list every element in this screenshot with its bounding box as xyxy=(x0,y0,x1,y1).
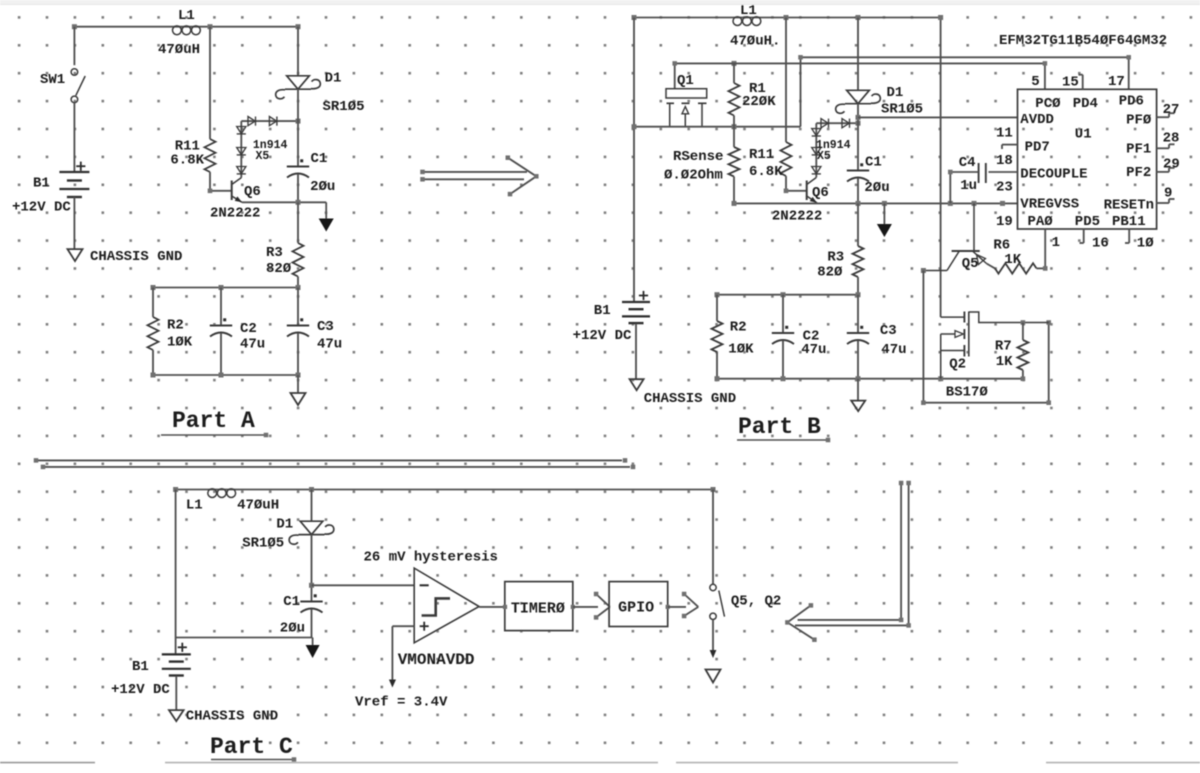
svg-text:Part B: Part B xyxy=(738,414,821,440)
node Q2 drain to R7 xyxy=(1021,320,1026,325)
svg-text:PD6: PD6 xyxy=(1119,94,1144,110)
resistor R11 6.8K (Part A) xyxy=(170,139,215,173)
label PC0 xyxy=(1035,96,1061,112)
wire PC0 bus (pin 5) xyxy=(672,61,1047,89)
svg-text:U1: U1 xyxy=(1075,127,1092,143)
diode string 1n914 x5 (Part A) xyxy=(237,117,298,178)
inductor L1 (Part C) xyxy=(186,489,279,514)
svg-text:Q6: Q6 xyxy=(244,184,261,200)
current arrow (Part C) xyxy=(306,638,320,659)
node Part A D1 tap xyxy=(296,24,301,29)
node Part B top-left xyxy=(632,15,637,20)
svg-text:82Ø: 82Ø xyxy=(266,261,292,277)
svg-text:CHASSIS GND: CHASSIS GND xyxy=(186,709,278,725)
wire ground rail (Part B) xyxy=(715,376,1023,381)
transistor Q1 P-MOSFET (Part B) xyxy=(666,63,707,126)
svg-text:GPIO: GPIO xyxy=(618,600,654,617)
switch Q5,Q2 (Part C) xyxy=(710,584,782,619)
double arrow MCU to switch xyxy=(785,481,911,642)
svg-text:+12V DC: +12V DC xyxy=(111,682,170,698)
capacitor C3 47u (Part A) xyxy=(287,318,342,352)
svg-text:PF2: PF2 xyxy=(1126,165,1151,181)
resistor RSense 0.02Ohm (Part B) xyxy=(664,127,740,204)
label VMONAVDD xyxy=(398,651,475,669)
svg-text:26 mV hysteresis: 26 mV hysteresis xyxy=(364,550,498,566)
svg-text:Part A: Part A xyxy=(172,408,255,434)
wire C1 to emitter node xyxy=(297,174,299,202)
comparator (op-amp) xyxy=(414,568,479,643)
svg-text:22ØK: 22ØK xyxy=(742,94,776,110)
block TIMER0 xyxy=(503,582,575,631)
node diode string to D1 wire (Part B) xyxy=(856,121,861,126)
transistor Q2 BS170 (N-MOSFET) xyxy=(941,312,1049,401)
wire C4 to VREGVSS rail xyxy=(948,170,979,204)
wire BS170 frame xyxy=(921,271,1051,406)
svg-text:28: 28 xyxy=(1163,131,1180,147)
pin 15 stub xyxy=(1062,75,1083,91)
chassis ground (Part B battery) xyxy=(630,379,737,407)
node R1 top xyxy=(732,61,737,66)
capacitor C2 47u (Part A) xyxy=(210,318,265,352)
wire Q6 emitter rail xyxy=(242,200,326,205)
svg-text:R7: R7 xyxy=(995,339,1012,355)
ground (Part B filter) xyxy=(851,401,865,412)
transistor Q5 (PNP) xyxy=(923,203,986,272)
pin 10 / PB11 stub xyxy=(1125,229,1154,252)
wire filter box top (Part A) xyxy=(151,285,301,290)
pin 17 label xyxy=(1108,74,1125,90)
label AVDD xyxy=(1020,112,1054,128)
wire filter box top (Part B) xyxy=(715,292,861,297)
svg-text:18: 18 xyxy=(996,153,1013,169)
top window edge strip xyxy=(0,0,1200,5)
svg-text:Q5, Q2: Q5, Q2 xyxy=(731,594,781,610)
wire R2 lower lead xyxy=(152,350,154,375)
wire D1 anode lead (Part C) xyxy=(311,490,313,522)
label PD4 xyxy=(1073,96,1098,112)
label EFM32 part number xyxy=(999,33,1167,49)
wire GPIO output xyxy=(668,606,686,608)
resistor R2 10K (Part B) xyxy=(712,320,755,358)
wire battery to ground (Part C) xyxy=(175,676,177,710)
resistor R3 820 (Part B) xyxy=(817,246,863,281)
svg-text:X5: X5 xyxy=(817,150,831,163)
wire R3 to filter box xyxy=(297,277,299,288)
svg-text:C1: C1 xyxy=(283,594,300,610)
pin 1 / PA0 stub to R6 xyxy=(1045,229,1060,269)
label VREGVSS xyxy=(1020,197,1079,213)
pin 27 / PF0 stub xyxy=(1126,102,1179,129)
svg-text:VMONAVDD: VMONAVDD xyxy=(398,651,475,669)
svg-text:47u: 47u xyxy=(801,342,826,358)
pin 11 / PD7 stub xyxy=(996,126,1050,156)
wire R11 lead from rail xyxy=(209,27,211,139)
transistor Q6 2N2222 (Part B) xyxy=(772,178,829,225)
wire rail to battery (Part C) xyxy=(175,638,177,655)
label Vref xyxy=(355,695,448,711)
resistor R11 6.8K (Part B) xyxy=(749,142,792,180)
wire C2 lower lead xyxy=(220,333,222,375)
pin 29 / PF2 stub xyxy=(1126,157,1180,182)
capacitor C1 20u (Part B) xyxy=(847,155,890,197)
resistor R6 1K xyxy=(993,238,1047,274)
chassis ground (Part A battery) xyxy=(68,249,183,265)
inductor L1 (Part A) xyxy=(158,8,200,58)
svg-text:Q2: Q2 xyxy=(949,357,966,373)
wire C1 to bottom rail (Part C) xyxy=(311,609,313,638)
transistor Q6 2N2222 (Part A) xyxy=(210,178,261,222)
pin 16 / PD5 stub xyxy=(1080,229,1109,252)
wire R11 to Q6 base xyxy=(208,172,232,193)
wire Q1 source rail xyxy=(632,124,801,129)
node comparator tap xyxy=(309,583,314,588)
svg-text:1: 1 xyxy=(1052,235,1060,251)
svg-text:C3: C3 xyxy=(317,319,334,335)
wire D1 anode lead xyxy=(297,27,299,76)
svg-text:B1: B1 xyxy=(132,659,149,675)
wire R3 upper lead xyxy=(297,202,299,243)
wire R11 lead (Part B) xyxy=(785,18,787,143)
chassis ground (Part C battery) xyxy=(169,709,278,725)
wire battery to ground xyxy=(73,197,75,249)
svg-text:19: 19 xyxy=(996,214,1013,230)
svg-text:RESETn: RESETn xyxy=(1104,198,1154,214)
wire filter box bottom (Part A) xyxy=(151,373,301,378)
wire Part C left rail xyxy=(175,490,177,638)
capacitor C1 20u (Part A) xyxy=(287,151,336,195)
capacitor C1 20u (Part C) xyxy=(280,594,323,637)
svg-text:6.8K: 6.8K xyxy=(749,164,783,180)
svg-text:B1: B1 xyxy=(594,303,611,319)
svg-text:82Ø: 82Ø xyxy=(817,265,843,281)
svg-text:R3: R3 xyxy=(266,245,283,261)
svg-text:47ØuH: 47ØuH xyxy=(237,498,279,514)
svg-text:L1: L1 xyxy=(186,498,203,514)
wire D1 anode lead (Part B) xyxy=(857,18,859,91)
svg-text:1Ø: 1Ø xyxy=(1137,236,1154,252)
node AVDD tap xyxy=(856,115,861,120)
capacitor C2 47u (Part B) xyxy=(772,326,827,358)
svg-text:PFØ: PFØ xyxy=(1126,113,1152,129)
diode D1 SR105 (Part B) xyxy=(836,85,923,118)
label 26 mV hysteresis xyxy=(364,550,498,566)
svg-text:SW1: SW1 xyxy=(40,72,65,88)
label PB11 xyxy=(1112,214,1146,230)
wire R11 to Q6 base (Part B) xyxy=(784,176,807,193)
svg-text:C1: C1 xyxy=(311,151,328,167)
svg-text:Q6: Q6 xyxy=(812,185,829,201)
label Part B xyxy=(737,414,830,442)
wire D1 to C1 xyxy=(297,89,299,166)
wire to ground (Part B filter) xyxy=(857,379,859,401)
svg-text:RSense: RSense xyxy=(673,149,723,165)
svg-text:PF1: PF1 xyxy=(1126,142,1151,158)
wire Part C top rail xyxy=(176,489,713,491)
svg-text:D1: D1 xyxy=(276,517,293,533)
svg-text:47ØuH: 47ØuH xyxy=(158,42,200,58)
svg-text:Q1: Q1 xyxy=(677,73,694,89)
svg-text:X5: X5 xyxy=(256,150,270,163)
svg-text:6.8K: 6.8K xyxy=(170,153,204,169)
svg-text:27: 27 xyxy=(1163,102,1180,118)
wire Part A top rail xyxy=(74,26,298,28)
pin 23 label xyxy=(996,180,1013,196)
resistor R1 220K (Part B) xyxy=(729,63,777,126)
pin 19 label xyxy=(996,214,1013,230)
node Q5 collector xyxy=(921,268,926,273)
svg-text:SR1Ø5: SR1Ø5 xyxy=(242,536,284,552)
wire AVDD to MCU xyxy=(858,116,1018,118)
svg-text:2Øu: 2Øu xyxy=(310,179,335,195)
svg-text:C3: C3 xyxy=(880,323,897,339)
wire C2 upper lead xyxy=(220,288,222,326)
wire to ground (Part A filter) xyxy=(297,375,299,393)
svg-text:17: 17 xyxy=(1108,74,1125,90)
node Part A R11 tap xyxy=(208,24,213,29)
wire PD6 bus (pin 17) xyxy=(798,55,1131,127)
svg-text:9: 9 xyxy=(1164,186,1172,202)
svg-text:B1: B1 xyxy=(33,176,50,192)
label PA0 xyxy=(1028,214,1054,230)
wire C3 lower lead (Part B) xyxy=(857,341,859,379)
svg-text:TIMERØ: TIMERØ xyxy=(511,601,565,618)
inductor L1 (Part B) xyxy=(730,3,780,50)
svg-text:SR1Ø5: SR1Ø5 xyxy=(881,102,923,118)
separator double line xyxy=(34,458,636,469)
wire C1 to VREGVSS rail (Part B) xyxy=(857,178,859,203)
wire Part B top rail xyxy=(634,18,941,318)
svg-text:1ØK: 1ØK xyxy=(728,342,754,358)
wire Part C bottom rail xyxy=(176,637,313,639)
svg-text:PB11: PB11 xyxy=(1112,214,1146,230)
svg-text:23: 23 xyxy=(996,180,1013,196)
capacitor C4 1u xyxy=(959,155,986,194)
ground (Part C switch) xyxy=(706,670,721,683)
label Part C xyxy=(210,734,296,762)
wire to comparator minus input xyxy=(312,584,415,586)
wire C2 lower lead (Part B) xyxy=(782,341,784,379)
svg-text:PCØ: PCØ xyxy=(1035,96,1061,112)
svg-text:29: 29 xyxy=(1163,157,1180,173)
wire R2 lower lead (Part B) xyxy=(716,352,718,379)
svg-text:L1: L1 xyxy=(740,3,757,19)
arrow from GPIO xyxy=(682,592,698,619)
diode D1 SR105 (Part A) xyxy=(276,71,365,116)
svg-text:1K: 1K xyxy=(996,354,1013,370)
svg-text:+12V DC: +12V DC xyxy=(12,200,71,216)
wire R3 to filter box (Part B) xyxy=(857,277,859,295)
bottom window edge strip xyxy=(0,762,1200,764)
svg-text:R11: R11 xyxy=(749,147,774,163)
pin 5 label xyxy=(1031,74,1039,90)
current arrow (Part B) xyxy=(877,203,892,237)
node R7 bottom xyxy=(1021,376,1026,381)
wire R3 upper lead (Part B) xyxy=(857,203,859,246)
node Part B rail corner xyxy=(938,15,943,20)
svg-text:EFM32TG11B54ØF64GM32: EFM32TG11B54ØF64GM32 xyxy=(999,33,1167,49)
wire D1 to C1 (Part B) xyxy=(857,104,859,171)
diode D1 SR105 (Part C) xyxy=(242,517,334,552)
svg-text:DECOUPLE: DECOUPLE xyxy=(1020,167,1087,183)
resistor R3 820 (Part A) xyxy=(266,243,304,277)
wire C2 upper lead (Part B) xyxy=(782,295,784,333)
pin 28 / PF1 stub xyxy=(1126,131,1179,158)
wire C3 upper lead xyxy=(297,288,299,326)
svg-text:D1: D1 xyxy=(325,71,342,87)
svg-text:CHASSIS GND: CHASSIS GND xyxy=(90,249,182,265)
label Part A xyxy=(161,408,268,437)
svg-text:+12V DC: +12V DC xyxy=(573,328,632,344)
svg-text:11: 11 xyxy=(996,126,1013,142)
svg-text:1K: 1K xyxy=(1004,252,1021,268)
capacitor C3 47u (Part B) xyxy=(847,323,907,358)
svg-text:47u: 47u xyxy=(881,342,906,358)
svg-text:2N2222: 2N2222 xyxy=(772,209,822,225)
node Part B R11 tap xyxy=(784,15,789,20)
svg-text:R2: R2 xyxy=(730,320,747,336)
diode string 1n914 x5 (Part B) xyxy=(812,119,858,178)
svg-text:PAØ: PAØ xyxy=(1028,214,1054,230)
svg-text:C4: C4 xyxy=(959,155,976,171)
battery B1 (Part A) xyxy=(12,162,89,216)
svg-text:CHASSIS GND: CHASSIS GND xyxy=(644,391,736,407)
svg-text:47ØuH.: 47ØuH. xyxy=(730,34,780,50)
wire VREGVSS rail xyxy=(732,201,1018,206)
wire DECOUPLE to C4 xyxy=(989,171,1018,173)
svg-text:SR1Ø5: SR1Ø5 xyxy=(323,99,365,115)
svg-text:16: 16 xyxy=(1092,236,1109,252)
svg-text:47u: 47u xyxy=(240,337,265,353)
resistor R2 10K (Part A) xyxy=(148,317,193,351)
svg-text:C1: C1 xyxy=(865,155,882,171)
svg-text:VREGVSS: VREGVSS xyxy=(1020,197,1079,213)
wire SW1 to battery xyxy=(73,103,75,172)
svg-text:Vref = 3.4V: Vref = 3.4V xyxy=(355,695,448,711)
wire comparator plus input to Vref xyxy=(389,626,414,687)
wire C3 lower lead xyxy=(297,333,299,375)
svg-text:D1: D1 xyxy=(887,85,904,101)
wire switch to ground (Part C) xyxy=(710,620,717,659)
svg-text:PD7: PD7 xyxy=(1025,140,1050,156)
node diode string to D1 wire xyxy=(296,119,301,124)
svg-text:Part C: Part C xyxy=(210,734,293,760)
pin 18 label xyxy=(996,153,1013,169)
svg-text:L1: L1 xyxy=(178,8,195,24)
svg-text:15: 15 xyxy=(1062,75,1079,91)
svg-text:R3: R3 xyxy=(827,250,844,266)
wire C3 upper lead (Part B) xyxy=(857,295,859,333)
ground (Part A filter) xyxy=(291,393,306,405)
node Part B D1 tap xyxy=(856,15,861,20)
svg-text:5: 5 xyxy=(1031,74,1039,90)
wire R2 upper lead (Part B) xyxy=(716,295,718,321)
switch SW1 xyxy=(40,69,85,103)
double arrow Part A to Part B xyxy=(420,155,538,196)
svg-text:PD4: PD4 xyxy=(1073,96,1098,112)
svg-text:1u: 1u xyxy=(960,178,977,194)
node Part C D1 tap xyxy=(309,487,314,492)
svg-text:1ØK: 1ØK xyxy=(167,335,193,351)
resistor R7 1K xyxy=(995,323,1029,379)
svg-text:PD5: PD5 xyxy=(1075,214,1100,230)
svg-text:2N2222: 2N2222 xyxy=(210,206,260,222)
wire D1 to C1 (Part C) xyxy=(311,535,313,602)
wire Part B left rail xyxy=(633,18,635,303)
svg-text:2Øu: 2Øu xyxy=(280,621,305,637)
wire comparator output xyxy=(479,606,505,608)
svg-text:2Øu: 2Øu xyxy=(864,180,889,196)
svg-text:C2: C2 xyxy=(240,321,257,337)
wire switch upper lead (Part C) xyxy=(712,490,714,585)
wire battery to ground (Part B) xyxy=(635,324,637,380)
label DECOUPLE xyxy=(1020,167,1087,183)
battery B1 (Part B) xyxy=(573,291,650,344)
svg-text:Q5: Q5 xyxy=(962,256,979,272)
svg-text:R2: R2 xyxy=(167,318,184,334)
svg-text:47u: 47u xyxy=(317,337,342,353)
svg-text:BS17Ø: BS17Ø xyxy=(946,385,989,401)
svg-text:AVDD: AVDD xyxy=(1020,112,1054,128)
block GPIO xyxy=(609,582,670,627)
current arrow (Part A) xyxy=(319,202,334,231)
label PD5 xyxy=(1075,214,1100,230)
node Part A top-left xyxy=(72,24,77,29)
node Part C top-left xyxy=(173,487,178,492)
wire SW1 upper lead xyxy=(73,27,75,65)
pin 9 / RESETn stub xyxy=(1104,186,1175,214)
label PD6 xyxy=(1119,94,1144,110)
wire R2 upper lead xyxy=(152,288,154,318)
arrow into GPIO xyxy=(594,592,610,620)
MCU U1 EFM32 package outline xyxy=(1018,89,1157,229)
node Part C switch tap xyxy=(711,487,716,492)
svg-text:Ø.Ø2Ohm: Ø.Ø2Ohm xyxy=(664,168,723,184)
battery B1 (Part C) xyxy=(111,643,191,698)
wire Q5 to R6 xyxy=(987,264,996,269)
wire TIMER0 to GPIO xyxy=(573,606,598,608)
